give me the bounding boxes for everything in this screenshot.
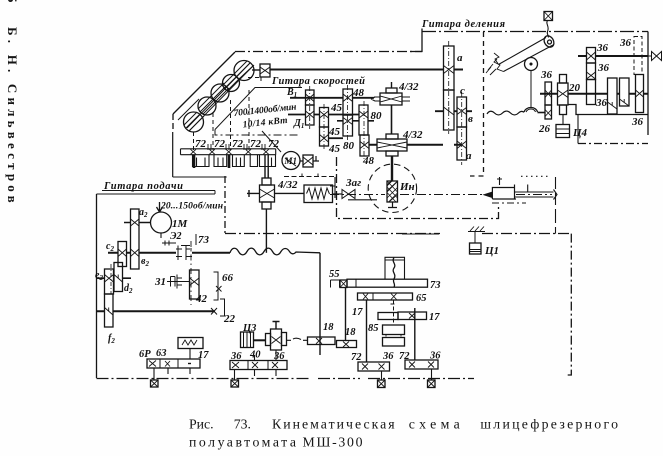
svg-text:В1: В1 [286,87,297,99]
dashed housing under bearing [248,78,261,82]
division axis dash 2 [461,92,463,165]
bracket 73 [195,234,197,245]
label b [468,113,473,125]
axis dashline col C [347,85,349,140]
label 31 [154,276,166,288]
division gear a top [444,46,455,90]
gear col x607 [608,78,618,114]
svg-text:36: 36 [382,351,394,362]
svg-text:36: 36 [540,69,553,81]
label 42 [195,293,208,305]
svg-text:Заг: Заг [345,177,361,189]
rack engaged tooth 3 [228,155,231,168]
label 17 [198,350,209,361]
svg-text:МШ-300: МШ-300 [303,434,363,449]
border step x578 [577,115,579,144]
inner frame around center [337,157,499,219]
division gear b [457,127,467,160]
label 85 [368,323,379,334]
worm 1 4/32 [371,82,410,105]
svg-text:55: 55 [329,269,340,280]
label 36 cyl [540,69,553,81]
block 85 upper [383,325,405,335]
gear e2 [105,269,114,294]
cone pulley disc 3 [211,83,229,102]
dash drop line from disc1 [193,132,195,150]
long shaft y311 [97,310,215,312]
worm2 label 4/32 [402,129,423,141]
cylinder broken end hatch [486,53,504,75]
bar 65 [358,293,413,300]
label 18 left [323,322,334,333]
rack x-mark 3 [226,149,232,154]
vertical to table [391,156,393,181]
worm3 down vertical [265,209,267,253]
cross right dash shaft [287,338,308,340]
plunger stem [562,115,564,125]
svg-text:1М: 1М [172,218,189,230]
counterweight cord [547,21,549,38]
bar 72-36 right [405,360,438,369]
spindle gear col bottom [587,80,596,105]
label feed guitar [103,181,183,192]
bar 18b [337,341,357,348]
worm3 drive vertical [265,155,268,178]
hop arc over spring [524,108,538,113]
label 4/32 worm3 [277,179,298,191]
svg-text:80: 80 [371,110,383,122]
label 45 b [328,126,341,138]
label In [399,181,415,193]
label a top [457,52,463,64]
cylinder C1 [470,243,482,254]
label d2 [124,283,133,295]
worm1 label 4/32 [398,81,419,93]
bracket 22 [220,299,225,316]
svg-text:d2: d2 [124,283,133,295]
rack channel 5 [260,155,276,167]
outer border diagonal inner parallel [178,99,199,120]
output bowtie [648,52,662,61]
svg-text:26: 26 [538,123,551,135]
label e2 [95,270,103,282]
cone pulley disc 4 [222,73,240,92]
tailstock quill dotted guide [521,175,550,177]
C1 drop line [474,232,476,243]
shaft I top y69 [270,69,463,71]
svg-text:Гитара деления: Гитара деления [421,19,506,30]
label 36 b [273,351,285,362]
svg-text:73.: 73. [234,416,251,431]
svg-text:Э2: Э2 [170,231,182,242]
bed right vertical x571.5 [565,234,571,375]
screw dash vertical [391,301,397,326]
gear a2 tall [131,209,140,269]
svg-text:73: 73 [430,280,441,291]
svg-text:4/32: 4/32 [398,81,419,93]
spindle gear col mid 36 [587,63,596,80]
oil trough line [173,176,227,178]
rack x-mark 5 [263,149,269,154]
label 36 sp1 [596,42,609,54]
index worm wheel hatched [387,181,398,202]
shaft II y97.5 [290,97,374,99]
bearing x small [216,286,222,292]
svg-text:72: 72 [351,352,362,363]
left support bracket [330,177,335,198]
svg-text:73: 73 [198,234,210,246]
labels 72 36 right [399,351,441,363]
step line to y114.5 [568,105,649,115]
vertical dash x191 [190,241,192,305]
tick marks between 72 labels [208,144,265,150]
axis dashline col B2 [323,104,325,150]
shaft III y114.5 [288,114,359,116]
division gear a2 [444,90,455,130]
gear D upper 80 [359,105,368,135]
cylinder C3 [241,332,254,348]
svg-text:Ц4: Ц4 [572,127,588,139]
tailstock body [492,177,557,200]
label speed guitar [271,76,365,87]
label 18 right [345,327,356,338]
label 22 [223,313,236,325]
label 36 a [230,351,242,362]
svg-text:Гитара скоростей: Гитара скоростей [271,76,365,87]
label 80 left [343,140,355,152]
svg-text:М1: М1 [284,156,298,166]
svg-text:72: 72 [232,138,244,150]
bracket 66 [214,272,219,300]
spring box [304,185,333,203]
gear C lower [343,115,353,136]
clutch box stem [189,349,191,360]
motor lower clutch tick [162,241,176,246]
svg-text:Рис.: Рис. [189,416,214,431]
svg-text:а: а [466,150,472,162]
label 6R [139,349,151,360]
axis dashline col D [363,101,365,160]
svg-text:45: 45 [328,126,341,138]
M1 dashed base [284,174,337,177]
cone belt band [187,63,253,131]
svg-text:Д1: Д1 [293,118,304,130]
label 20 [568,82,581,94]
svg-text:85: 85 [368,323,379,334]
vertical x414 [414,308,416,360]
label 17 left [352,307,363,318]
headstock bowtie [342,190,355,199]
border bottom right y143 [578,143,648,145]
label c2 [106,241,114,253]
svg-text:63: 63 [156,348,167,359]
svg-text:с: с [460,85,465,97]
shaft V y138.2 [328,137,343,139]
label E2 [170,231,182,242]
label b2 [141,256,149,268]
solid line left of hatch [402,233,439,235]
feed wavy shaft [230,248,320,255]
label C1 [484,245,499,257]
svg-text:31: 31 [154,276,166,288]
bar3640 stems [235,350,277,380]
svg-text:20...150об/мин: 20...150об/мин [160,201,223,212]
label C4 [572,127,588,139]
label 40 [249,350,261,361]
label f2 [108,333,115,345]
rack channel 2 [214,155,227,167]
svg-text:4/32: 4/32 [402,129,423,141]
M1 label [284,156,298,166]
label 36 top right [619,37,632,49]
label C3 [242,323,256,334]
svg-text:4/32: 4/32 [277,179,298,191]
link line disc5 to bearing [252,69,260,71]
axis dashline col B1 [309,86,311,129]
svg-text:5: 5 [5,0,20,3]
bar 18 [308,337,336,345]
x-box bottom left [151,380,159,387]
label 36 sp3 [595,97,608,109]
tailstock center arrow [484,192,492,198]
svg-text:Ин: Ин [399,181,415,193]
svg-text:22: 22 [223,313,236,325]
svg-text:65: 65 [416,293,427,304]
left gear col lower [545,105,552,119]
bottom frame dash-dot [97,378,475,380]
workpiece underline [348,199,377,201]
bar 73 [347,279,428,287]
plunger gear 20 [558,75,569,115]
dashed gear alt position [634,37,642,75]
spine text [5,0,20,207]
x-box right a [378,380,386,388]
gear C upper 48 [343,89,353,115]
svg-text:45: 45 [328,143,341,155]
cross top stem [273,322,280,330]
pulley circle [525,58,538,71]
M1 output gear [300,155,319,167]
label division guitar [421,19,506,30]
feed shaft y253 [108,252,230,254]
feed rack bar [181,149,276,155]
svg-text:36: 36 [230,351,242,362]
feed box left vertical [96,194,98,378]
label 45 a [330,102,343,114]
svg-text:36: 36 [631,116,644,128]
feed motor speed text [160,201,223,212]
cutter cylinder [499,34,556,71]
svg-text:36: 36 [596,42,609,54]
svg-text:с2: с2 [106,241,114,253]
bearing box right of cone [260,64,270,77]
gear c2 [118,242,127,267]
motor 1M circle [151,202,172,238]
svg-text:Ц3: Ц3 [242,323,256,334]
block 85 lower [383,338,405,347]
svg-text:20: 20 [568,82,581,94]
svg-text:45: 45 [330,102,343,114]
rack x-mark 4 [246,149,252,154]
rack engaged tooth 1 [193,155,196,168]
svg-text:е2: е2 [95,270,103,282]
label 45 c [328,143,341,155]
label 26 [538,123,551,135]
leader line text to M1 [262,131,281,152]
clutch 31 [167,275,190,289]
division gear c [457,97,467,127]
wavy shaft segment [487,111,524,115]
center axis dash-dot line [330,194,552,196]
gear 42 block [190,270,200,299]
svg-text:Б. Н. Сильвестров: Б. Н. Сильвестров [5,27,20,207]
svg-text:схема: схема [409,416,460,431]
shaft IV dash y120.8 [337,120,374,122]
left gear 36 col upper [545,82,552,105]
worm 2 4/32 [377,134,407,156]
gear B1 upper [306,90,315,105]
wavy to gear link [538,112,546,114]
svg-text:72: 72 [250,138,262,150]
vertical from wavy to lower gear [319,253,321,355]
C3 shaft [254,339,266,341]
motor M1 circle [282,152,300,170]
gear B2 upper [320,108,329,128]
svg-text:66: 66 [222,272,234,284]
svg-text:42: 42 [195,293,208,305]
cone pulley disc 5 [234,61,254,81]
shaft end x [211,308,217,315]
inner boundary diagonal [215,88,302,130]
svg-text:Гитара подачи: Гитара подачи [103,181,183,192]
label a2 [139,207,148,219]
division shaft y111 [435,110,472,112]
label 55 [329,269,340,280]
spindle shaft top y56 [578,55,648,57]
x-box right b [428,380,436,388]
svg-text:Ц1: Ц1 [484,245,499,257]
gear B2 lower [320,127,329,146]
block 85 link [386,335,401,338]
label 65 [416,293,427,304]
svg-text:48: 48 [352,87,365,99]
gear B1 lower [306,105,315,125]
svg-text:а: а [457,52,463,64]
counterweight box [544,12,553,21]
rack channel 4 [250,155,257,167]
feed box top line [97,191,216,195]
clutch E2 jaws [176,246,192,261]
vertical worm shaft [391,105,393,134]
svg-text:17: 17 [198,350,209,361]
svg-text:шлицефрезерного: шлицефрезерного [480,416,618,431]
label 48 top [352,87,365,99]
division axis dash 1 [448,41,450,134]
bar 17 row [378,312,427,320]
label 72 row [195,138,280,150]
label c [460,85,465,97]
shaft VI y144.8 [369,144,461,146]
labels 72 36 left [351,351,394,363]
rack channel 3 [233,155,245,167]
svg-text:36: 36 [273,351,285,362]
below table stem [388,202,397,208]
label 1M [172,218,189,230]
svg-text:17: 17 [429,312,440,323]
pulley cord down [530,71,532,108]
tailstock base [492,202,526,204]
svg-text:36: 36 [597,62,610,74]
cone pulley disc 1 [184,112,205,132]
label 73 [430,280,441,291]
rack channel 1 [193,155,210,167]
gear 36 right solid [636,75,644,113]
bar 73 left bracket [331,280,340,288]
border top horizontal y52 [235,51,422,53]
bar 36-40-36 [230,361,287,370]
svg-text:48: 48 [362,155,375,167]
border jog up at x422 [410,29,422,52]
dash drop line from disc2 [212,113,214,150]
motor shaft left [124,222,150,224]
tailstock right vertical [555,177,557,234]
svg-text:в: в [468,113,473,125]
rack x-mark 2 [209,149,215,154]
dash drop line from disc3 [230,100,232,150]
gear D lower 80 [360,135,369,156]
svg-text:18: 18 [345,327,356,338]
dash drop line from disc4 [248,90,250,150]
svg-text:80: 80 [343,140,355,152]
label Zag [345,177,361,189]
gear col x619 [620,78,630,106]
cone pulley disc 2 [198,96,216,115]
main right shaft y93.5 [540,93,648,95]
bar 6R-63-17 [147,359,200,368]
svg-text:в2: в2 [141,256,149,268]
svg-text:f2: f2 [108,333,115,345]
vertical x345 down [345,288,347,341]
label 80 right [371,110,383,122]
svg-text:полуавтомата: полуавтомата [189,434,296,449]
svg-text:36: 36 [429,351,441,362]
svg-text:40: 40 [249,350,261,361]
drop to x-box left [153,368,155,380]
bed dash-dot y233.5 [225,233,572,235]
svg-text:72: 72 [195,138,207,150]
bar 73 x-box [340,280,347,288]
inner boundary foot [215,130,299,136]
rack x-mark 1 [191,149,197,154]
label a bottom [466,150,472,162]
outer border left vertical [172,114,174,132]
border right vertical x648 [647,32,649,136]
cylinder C4 [556,125,570,138]
caption line 1 [189,416,618,431]
worm 3 4/32 [260,178,275,209]
label 66 [222,272,234,284]
bevel cross block [266,329,287,350]
svg-text:36: 36 [619,37,632,49]
label 36 bottom right [631,116,644,128]
label D1 [293,118,304,130]
svg-text:36: 36 [595,97,608,109]
label 17 right [429,312,440,323]
bar 72-36 left [358,362,390,371]
label 36 sp2 [597,62,610,74]
label 63 [156,348,167,359]
caption line 2 [189,434,363,449]
